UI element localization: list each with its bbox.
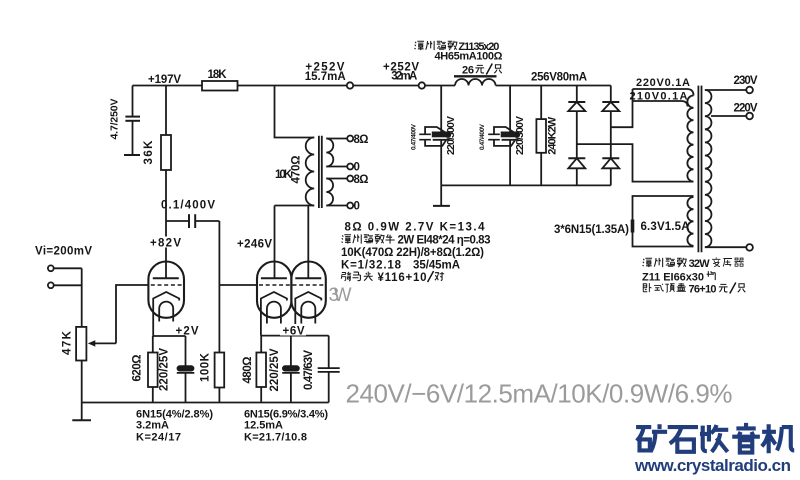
HV tap line 220V: [633, 89, 694, 96]
HV tap line 210V: [633, 101, 688, 107]
capacitor 220/25V cathode V1: [177, 336, 195, 403]
svg-text:0.1/400V: 0.1/400V: [161, 200, 215, 212]
wire cathode V1 down: [152, 301, 154, 337]
svg-text:620Ω: 620Ω: [132, 355, 144, 382]
svg-text:480Ω: 480Ω: [242, 357, 254, 384]
wire cathode V2 down: [260, 301, 262, 336]
resistor 100K: [215, 353, 225, 403]
svg-text:76+10: 76+10: [689, 284, 717, 296]
svg-text:+6V: +6V: [283, 326, 305, 338]
wire tap 0 upper: [326, 166, 347, 168]
terminal primary bottom: [746, 244, 753, 251]
svg-text:220/25V: 220/25V: [158, 348, 170, 391]
resistor 620 ohm: [148, 336, 158, 403]
svg-text:K=1/32.18: K=1/32.18: [341, 260, 402, 272]
wire AC2 bridge to HV bottom: [577, 144, 694, 182]
svg-text:2W EI48*24 η=0.83: 2W EI48*24 η=0.83: [398, 235, 491, 247]
svg-text:15.7mA: 15.7mA: [305, 71, 346, 83]
triode V3 plate: [295, 277, 321, 279]
input terminal bottom: [48, 282, 54, 288]
triode V1 grid dashed: [151, 284, 182, 286]
ground (PSU): [433, 185, 450, 206]
svg-text:36K: 36K: [143, 140, 155, 165]
svg-text:230V: 230V: [734, 75, 758, 87]
wire cathode V3 down: [294, 301, 296, 336]
wire OPT primary bottom: [275, 205, 315, 207]
pot wiper arrow: [88, 340, 116, 346]
triode V1 envelope: [148, 262, 184, 318]
wire B+ rail right segment: [496, 85, 611, 87]
node +197V wire to 36K: [165, 86, 167, 136]
capacitor 0.1/400V coupling: [166, 214, 219, 228]
svg-text:10K(470Ω 22H)/8+8Ω(1.2Ω): 10K(470Ω 22H)/8+8Ω(1.2Ω): [341, 247, 484, 259]
terminal 0 lower: [347, 203, 353, 209]
triode V1 heater arch: [159, 302, 173, 322]
triode V3 cathode chevron: [295, 292, 321, 301]
label OPT note line4: [341, 260, 460, 272]
svg-text:Z11 EI66x30: Z11 EI66x30: [642, 272, 704, 284]
label choke price: [462, 64, 502, 77]
OPT secondary upper coil: [326, 139, 333, 167]
svg-text:32mA: 32mA: [391, 71, 417, 83]
svg-text:0.47/400V: 0.47/400V: [479, 123, 486, 150]
svg-text:220/300V: 220/300V: [514, 116, 526, 155]
wire anode V2: [274, 206, 276, 279]
PSU ground bus: [441, 184, 611, 186]
label +246V: [236, 238, 273, 251]
resistor 36K: [161, 135, 171, 170]
bridge left branch wire: [576, 86, 578, 186]
svg-text:220V0.1A: 220V0.1A: [636, 77, 690, 89]
triode V3 envelope: [291, 262, 325, 318]
wire B+ rail left segment: [133, 85, 203, 87]
OPT primary coil 10K: [306, 138, 315, 206]
resistor 240K2W: [536, 86, 546, 186]
ground rail: [82, 402, 329, 404]
svg-text:0.47/63V: 0.47/63V: [303, 350, 315, 390]
svg-text:Vi=200mV: Vi=200mV: [35, 246, 92, 258]
capacitor 0.47/63V: [318, 336, 340, 403]
OPT core: [319, 136, 322, 208]
chassis bar below 4.7/250V: [124, 154, 140, 156]
wire +6V: [261, 335, 329, 337]
label PT info line1: [643, 258, 744, 270]
svg-text:3*6N15(1.35A): 3*6N15(1.35A): [554, 224, 629, 236]
fuse mark on 6.3V lead: [631, 220, 635, 233]
svg-text:100K: 100K: [200, 352, 212, 382]
svg-text:+197V: +197V: [148, 74, 181, 86]
svg-text:240K2W: 240K2W: [547, 116, 559, 155]
PT 6.3V winding loop: [633, 196, 694, 247]
svg-text:35/45mA: 35/45mA: [413, 260, 460, 272]
triode V2 cathode chevron: [261, 292, 287, 301]
watermark logo: [636, 423, 794, 453]
svg-text:3.2mA: 3.2mA: [136, 420, 169, 432]
terminal 8ohm lower: [347, 176, 353, 182]
svg-text:0.47/400V: 0.47/400V: [410, 123, 417, 150]
wire input top: [54, 267, 82, 269]
filter capacitor C1 220/300V with 0.47/400V: [419, 86, 449, 186]
svg-text:26: 26: [462, 65, 474, 77]
input terminal top: [48, 265, 54, 271]
diode D2 top-right: [602, 102, 619, 111]
svg-text:+246V: +246V: [237, 239, 272, 251]
label PT info line2: [642, 271, 715, 283]
wire tap 8ohm upper: [326, 138, 347, 140]
svg-text:K=24/17: K=24/17: [136, 432, 181, 444]
diode D3 bottom-left: [568, 158, 585, 168]
svg-text:6.3V1.5A: 6.3V1.5A: [641, 221, 690, 233]
PT HV secondary winding: [687, 96, 693, 182]
wire grid V2 V3: [219, 284, 257, 286]
terminal 230V: [746, 87, 753, 94]
label choke maker line1: [414, 41, 499, 53]
resistor 18K: [202, 81, 238, 91]
label OPT note line5: [341, 271, 444, 284]
wire PT primary 220V tap: [711, 115, 746, 117]
svg-text:3W: 3W: [329, 285, 352, 306]
svg-text:8Ω: 8Ω: [354, 134, 369, 146]
triode V2 plate: [261, 277, 287, 279]
choke coil Z1135x20: [455, 79, 496, 86]
resistor 480 ohm: [256, 336, 266, 403]
label +6V: [280, 324, 306, 338]
svg-text:+2V: +2V: [176, 326, 199, 338]
triode V2 envelope: [257, 262, 291, 318]
wire wiper riser to grid V1: [116, 285, 148, 343]
terminal +252V 32mA: [419, 82, 425, 88]
svg-text:47K: 47K: [62, 330, 74, 355]
svg-text:220/25V: 220/25V: [269, 348, 281, 391]
terminal 0 upper: [347, 164, 353, 170]
terminal 220V: [746, 113, 753, 120]
svg-text:8Ω: 8Ω: [354, 174, 369, 186]
wire coupling cap down to 100K and grid: [218, 221, 220, 353]
svg-text:12.5mA: 12.5mA: [244, 420, 283, 432]
label OPT note line2: [342, 234, 491, 246]
PT primary winding: [705, 90, 712, 247]
svg-text:220/300V: 220/300V: [445, 116, 457, 155]
wire PT primary bottom lead: [705, 246, 746, 248]
wire B+ to OPT primary top: [275, 86, 315, 138]
svg-text:210V0.1A: 210V0.1A: [630, 91, 688, 103]
OPT secondary lower coil: [326, 179, 333, 206]
choke core bar: [454, 75, 497, 77]
svg-text:220V: 220V: [734, 103, 758, 115]
wire tap 0 lower: [326, 205, 347, 207]
svg-text:18K: 18K: [208, 69, 228, 81]
svg-text:www.crystalradio.cn: www.crystalradio.cn: [634, 456, 791, 475]
grid dashed V2 V3: [259, 284, 324, 286]
triode V2 heater arch: [267, 302, 281, 324]
svg-text:¥116+10: ¥116+10: [378, 272, 427, 284]
terminal +252V 15.7mA: [347, 82, 353, 88]
svg-text:256V80mA: 256V80mA: [531, 72, 587, 84]
svg-text:32W: 32W: [689, 258, 711, 270]
wire input bottom: [54, 284, 82, 286]
capacitor 220/25V cathode V2 V3: [282, 336, 300, 403]
terminal 8ohm upper: [347, 136, 353, 142]
svg-text:470Ω: 470Ω: [291, 156, 303, 184]
PT 6.3V coil: [687, 197, 693, 246]
diode D1 top-left: [568, 102, 585, 111]
triode V1 cathode chevron: [153, 292, 179, 301]
svg-text:0: 0: [354, 162, 360, 174]
wire AC1 bridge to HV taps: [611, 89, 633, 127]
svg-text:0: 0: [354, 201, 360, 213]
label +82V: [148, 237, 185, 250]
svg-text:K=21.7/10.8: K=21.7/10.8: [244, 432, 307, 444]
PT core: [698, 86, 701, 253]
diode D4 bottom-right: [602, 158, 619, 168]
svg-text:240V/−6V/12.5mA/10K/0.9W/6.9%: 240V/−6V/12.5mA/10K/0.9W/6.9%: [346, 379, 733, 409]
ground (input): [72, 419, 91, 421]
triode V1 plate: [153, 277, 179, 279]
wire B+ rail middle segment: [238, 85, 456, 87]
wire anode V3: [307, 206, 309, 279]
wire PT primary 230V lead: [705, 89, 746, 91]
svg-text:+82V: +82V: [150, 238, 181, 250]
svg-text:4H65mA100Ω: 4H65mA100Ω: [435, 51, 503, 63]
svg-text:8Ω 0.9W 2.7V K=13.4: 8Ω 0.9W 2.7V K=13.4: [345, 222, 486, 234]
potentiometer 47K: [76, 327, 86, 420]
wire 36K to anode V1: [165, 170, 167, 278]
wire +2V: [153, 335, 185, 337]
bridge right branch wire: [610, 86, 612, 186]
wire input to pot: [81, 268, 83, 327]
filter capacitor C2 220/300V with 0.47/400V: [488, 86, 518, 186]
capacitor 4.7/250V: [125, 86, 140, 156]
wire tap 8ohm lower: [326, 178, 347, 180]
triode V3 heater arch: [301, 302, 315, 324]
label PT info line3: [643, 283, 745, 296]
svg-text:4.7/250V: 4.7/250V: [109, 99, 121, 140]
